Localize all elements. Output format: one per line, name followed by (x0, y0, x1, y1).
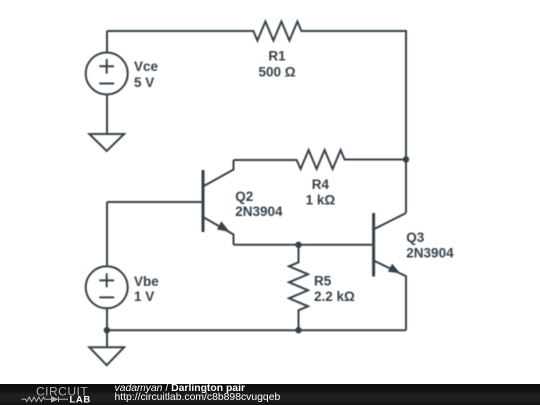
svg-text:Q3: Q3 (406, 230, 425, 245)
svg-text:5 V: 5 V (134, 75, 154, 90)
svg-text:1 V: 1 V (134, 289, 154, 304)
svg-text:Vce: Vce (134, 59, 159, 74)
svg-text:R4: R4 (312, 177, 330, 192)
svg-text:2N3904: 2N3904 (235, 204, 283, 219)
svg-text:2N3904: 2N3904 (406, 246, 454, 261)
svg-text:R5: R5 (314, 274, 332, 289)
svg-text:Vbe: Vbe (134, 274, 159, 289)
svg-text:Q2: Q2 (235, 189, 253, 204)
svg-text:1 kΩ: 1 kΩ (306, 192, 336, 207)
svg-text:R1: R1 (268, 49, 286, 64)
svg-text:500 Ω: 500 Ω (258, 64, 295, 79)
svg-text:2.2 kΩ: 2.2 kΩ (314, 289, 355, 304)
svg-text:LAB: LAB (70, 395, 91, 405)
